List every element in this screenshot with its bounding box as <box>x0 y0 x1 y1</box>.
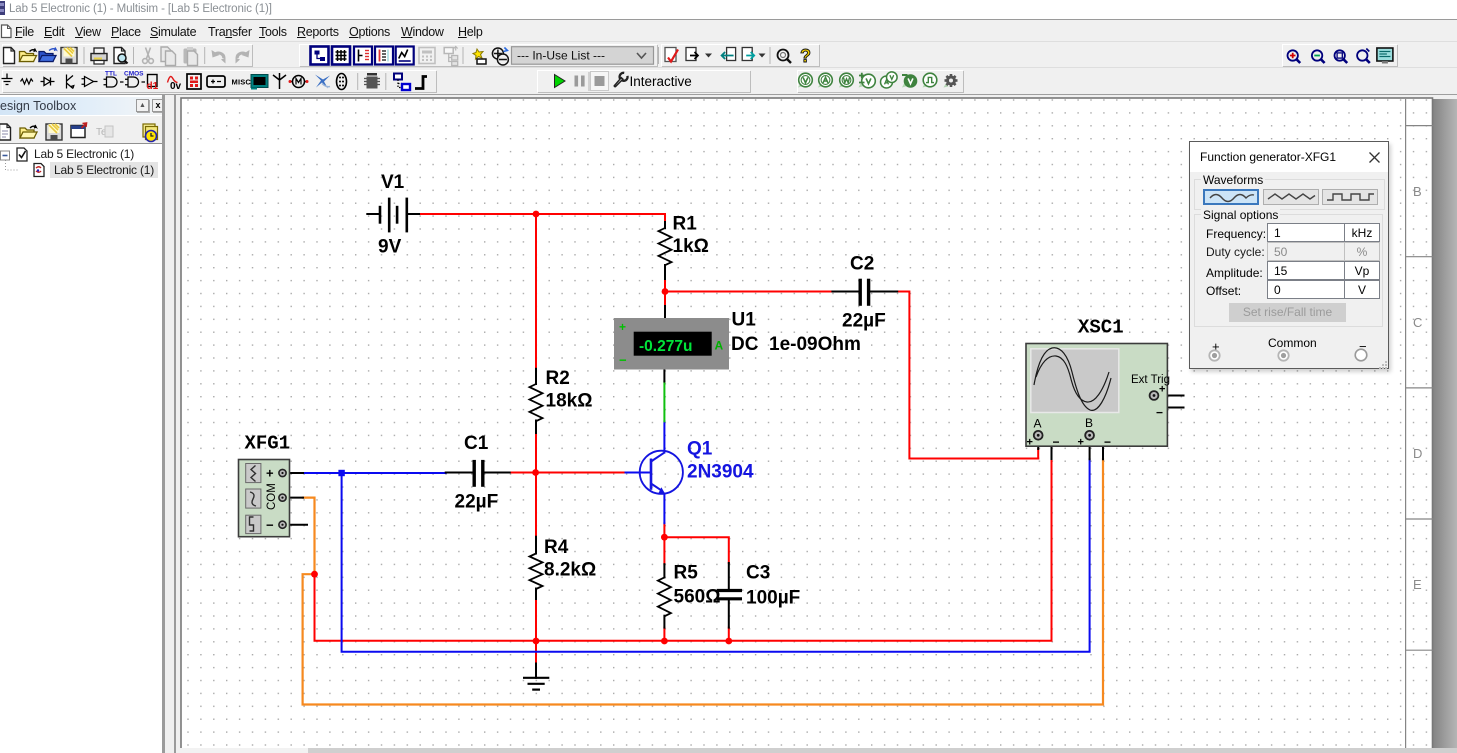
svg-text:E: E <box>1413 577 1422 592</box>
svg-text:MISC: MISC <box>232 78 252 87</box>
svg-text:+: + <box>619 320 626 334</box>
svg-text:Q1: Q1 <box>687 439 713 460</box>
svg-text:9V: 9V <box>378 237 402 258</box>
svg-text:A: A <box>715 339 724 353</box>
svg-text:B: B <box>1413 184 1422 199</box>
svg-text:−: − <box>619 353 627 368</box>
svg-text:R5: R5 <box>674 563 699 584</box>
svg-text:−: − <box>266 518 274 533</box>
svg-text:0v: 0v <box>170 81 182 92</box>
svg-text:U1: U1 <box>732 310 757 331</box>
svg-text:+: + <box>1159 384 1165 396</box>
svg-text:C3: C3 <box>746 563 770 584</box>
svg-text:22µF: 22µF <box>842 311 886 332</box>
svg-text:+: + <box>266 466 274 481</box>
svg-text:18kΩ: 18kΩ <box>546 391 593 412</box>
svg-text:560Ω: 560Ω <box>674 587 721 608</box>
svg-text:−: − <box>1053 435 1060 449</box>
svg-text:D: D <box>1413 446 1422 461</box>
svg-text:+: + <box>1027 437 1033 449</box>
svg-text:100µF: 100µF <box>746 588 800 609</box>
svg-text:R2: R2 <box>546 368 570 389</box>
svg-text:COM: COM <box>266 483 278 510</box>
svg-text:A: A <box>1034 417 1042 431</box>
svg-text:2N3904: 2N3904 <box>687 462 754 483</box>
svg-text:8.2kΩ: 8.2kΩ <box>544 560 596 581</box>
svg-text:22µF: 22µF <box>455 492 499 513</box>
svg-text:Interactive: Interactive <box>630 74 692 89</box>
svg-text:C2: C2 <box>850 254 874 275</box>
svg-text:d1: d1 <box>147 81 159 92</box>
svg-text:CMOS: CMOS <box>124 71 144 78</box>
svg-text:DC 1e-09Ohm: DC 1e-09Ohm <box>731 334 861 355</box>
svg-text:XFG1: XFG1 <box>245 433 291 455</box>
svg-text:C1: C1 <box>464 433 489 454</box>
svg-text:−: − <box>1156 406 1163 420</box>
svg-text:R1: R1 <box>673 214 698 235</box>
svg-text:-0.277u: -0.277u <box>639 338 692 355</box>
svg-text:−: − <box>1104 435 1111 449</box>
svg-text:R4: R4 <box>544 537 569 558</box>
svg-text:1kΩ: 1kΩ <box>673 236 709 257</box>
svg-text:XSC1: XSC1 <box>1078 317 1124 339</box>
svg-text:B: B <box>1085 416 1093 430</box>
svg-text:C: C <box>1413 315 1422 330</box>
svg-text:+: + <box>1078 437 1084 449</box>
svg-text:?: ? <box>800 46 811 66</box>
svg-text:V1: V1 <box>381 172 405 193</box>
svg-text:--- In-Use List ---: --- In-Use List --- <box>517 49 605 63</box>
svg-text:TTL: TTL <box>105 71 117 78</box>
